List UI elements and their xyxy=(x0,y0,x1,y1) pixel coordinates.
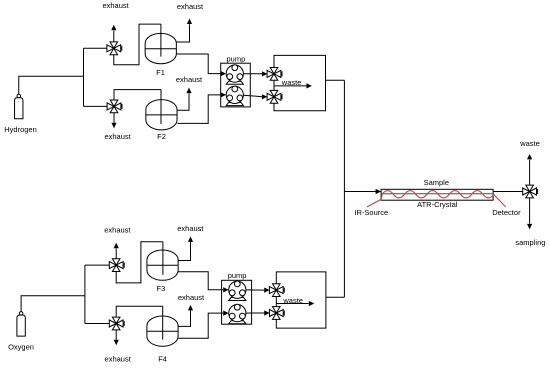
wire F1 to pump head A xyxy=(176,54,220,74)
wire oxygen branch vertical xyxy=(84,265,86,323)
svg-text:F1: F1 xyxy=(156,68,165,77)
svg-text:exhaust: exhaust xyxy=(177,2,204,11)
arrow into pump head C xyxy=(223,287,229,292)
wire pump head A to valve V5 xyxy=(243,73,262,75)
3-way valve V5 xyxy=(267,68,282,81)
svg-text:exhaust: exhaust xyxy=(178,293,205,302)
wire F4 to pump head D xyxy=(178,313,223,338)
pump head B xyxy=(226,86,243,106)
arrow F1 exhaust up xyxy=(187,19,192,25)
3-way valve V7 xyxy=(523,185,538,198)
arrow into pump head B xyxy=(221,92,227,97)
wash bottle F2 xyxy=(146,100,177,130)
arrow into pump head D xyxy=(223,311,229,316)
wire hydrogen cylinder to branch xyxy=(19,76,84,94)
wire waste top xyxy=(274,85,306,87)
wire V2 exhaust drop xyxy=(113,113,115,123)
wire V2 to F2 inlet xyxy=(114,90,161,101)
svg-text:waste: waste xyxy=(519,139,540,148)
arrow V4 exhaust down xyxy=(114,340,119,346)
arrow V7 sampling down xyxy=(527,224,532,230)
loop pipe bottom box xyxy=(276,272,326,328)
wire branch to valve V4 xyxy=(85,323,110,325)
gas cylinder Hydrogen xyxy=(15,94,23,118)
pump head D xyxy=(229,304,246,324)
arrow into ATR cell xyxy=(376,189,382,194)
pump box top xyxy=(221,63,251,107)
ATR cell center line xyxy=(381,193,493,195)
arrow F4 exhaust up xyxy=(188,305,193,311)
svg-text:ATR-Crystal: ATR-Crystal xyxy=(417,200,458,209)
arrow V1 exhaust up xyxy=(111,25,116,31)
arrow into valve V6 xyxy=(262,94,268,99)
arrow into valve V5 xyxy=(262,71,268,76)
wire oxygen cylinder to branch xyxy=(21,296,85,312)
arrow V3 exhaust up xyxy=(114,243,119,249)
svg-text:exhaust: exhaust xyxy=(176,75,203,84)
svg-text:exhaust: exhaust xyxy=(102,1,129,10)
wire V1 exhaust riser xyxy=(113,31,115,42)
ATR crystal cell body xyxy=(381,189,493,200)
wire pump head B to valve V6 xyxy=(243,95,262,97)
wash bottle F4 xyxy=(147,316,178,346)
3-way valve V6 xyxy=(267,90,282,103)
F1 dip tube xyxy=(160,24,162,57)
wire V7 waste riser xyxy=(529,160,531,186)
svg-text:sampling: sampling xyxy=(515,238,545,247)
svg-text:exhaust: exhaust xyxy=(104,225,131,234)
wire V7 sampling drop xyxy=(529,198,531,224)
F4 dip tube xyxy=(162,306,164,339)
arrow into pump head A xyxy=(221,71,227,76)
3-way valve V6b xyxy=(269,307,284,320)
wire V4 to F4 inlet xyxy=(116,306,163,317)
arrow into valve V6b xyxy=(264,310,270,315)
wire V3 exhaust riser xyxy=(115,249,117,259)
wire branch to valve V2 xyxy=(84,105,108,107)
wire waste bottom xyxy=(276,303,308,305)
svg-text:exhaust: exhaust xyxy=(177,224,204,233)
svg-text:exhaust: exhaust xyxy=(104,132,131,141)
svg-text:F4: F4 xyxy=(158,355,167,364)
wire V1 to F1 inlet xyxy=(114,24,161,65)
arrow F3 exhaust up xyxy=(188,236,193,242)
wire pump head C to valve V5b xyxy=(246,289,264,291)
IR beam path red xyxy=(367,191,506,207)
wire branch to valve V3 xyxy=(85,264,110,266)
svg-text:Hydrogen: Hydrogen xyxy=(4,125,37,134)
svg-text:F3: F3 xyxy=(157,284,166,293)
wire hydrogen branch vertical xyxy=(83,48,85,106)
wire bottom loop to main line xyxy=(326,296,345,298)
svg-text:pump: pump xyxy=(228,271,247,280)
3-way valve V3 xyxy=(109,259,124,272)
svg-text:Oxygen: Oxygen xyxy=(8,342,34,351)
arrow waste top xyxy=(306,83,312,88)
svg-text:pump: pump xyxy=(227,54,246,63)
arrow V7 waste up xyxy=(527,154,532,160)
3-way valve V1 xyxy=(107,42,122,55)
svg-text:IR-Source: IR-Source xyxy=(354,208,388,217)
F2 dip tube xyxy=(160,90,162,124)
arrow into valve V5b xyxy=(264,288,270,293)
wire main line to ATR cell xyxy=(344,191,375,193)
svg-text:exhaust: exhaust xyxy=(105,355,132,364)
wire ATR cell to valve V7 xyxy=(493,191,523,193)
gas cylinder Oxygen xyxy=(17,312,25,336)
pump box bottom xyxy=(222,280,252,324)
pump head C xyxy=(229,281,246,301)
svg-text:Sample: Sample xyxy=(424,178,449,187)
svg-text:waste: waste xyxy=(281,78,302,87)
F3 dip tube xyxy=(162,242,164,275)
wire F1 exhaust xyxy=(176,24,189,42)
loop pipe top box xyxy=(274,55,326,110)
wire F3 to pump head C xyxy=(178,272,223,290)
3-way valve V5b xyxy=(269,284,284,297)
wire branch to valve V1 xyxy=(84,47,108,49)
wire V3 to F3 inlet xyxy=(116,242,163,283)
wire F2 exhaust xyxy=(177,93,189,110)
wire V4 exhaust drop xyxy=(115,330,117,340)
wash bottle F3 xyxy=(147,250,178,280)
pump head A xyxy=(226,65,243,85)
arrow F2 exhaust up xyxy=(186,88,191,94)
wash bottle F1 xyxy=(145,33,176,63)
wire F3 exhaust xyxy=(178,242,190,260)
svg-text:waste: waste xyxy=(282,296,303,305)
wire pump head D to valve V6b xyxy=(246,312,264,314)
3-way valve V4 xyxy=(109,317,124,330)
arrow V2 exhaust down xyxy=(111,123,116,129)
wire F2 to pump head B xyxy=(177,95,220,124)
arrow waste bottom xyxy=(309,301,315,306)
wire main vertical line xyxy=(343,80,345,297)
3-way valve V2 xyxy=(107,100,122,113)
wire top loop to main line xyxy=(326,79,345,81)
svg-text:F2: F2 xyxy=(157,132,166,141)
svg-text:Detector: Detector xyxy=(492,208,521,217)
wire F4 exhaust xyxy=(178,310,190,326)
